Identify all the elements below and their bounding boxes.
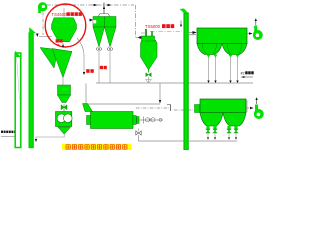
label #2 mill text (black) [241,71,254,75]
cyclone C2 [105,17,117,28]
caption yellow highlight with red text [62,144,132,150]
ball mill M1 body [91,112,134,129]
node T tick [103,3,105,8]
classifier U1 TS4500 body [52,18,77,42]
ball mill M1 left trunnion [87,116,91,125]
wire press discharge to elevator K2 [36,134,64,140]
node arrow on duct 2 [108,4,112,7]
wire down leg with arrow [159,84,161,102]
label TS4500 classifier (red) [52,12,82,17]
label 成品 red 2 [100,66,107,69]
wire dipleg 1 [98,51,100,84]
valve rotary C1 [96,48,99,51]
ball mill M1 feed chute [83,104,93,112]
valve rotary C2 [107,48,110,51]
wire top dash-dot duct [46,5,140,38]
wire crusher feed [1,136,17,141]
chute under roller press [58,127,71,134]
ball mill M1 right trunnion [133,116,136,125]
wire dashed vent from mill [136,107,169,109]
red ellipse callout [45,4,86,47]
svg-text:#2: #2 [241,72,245,76]
wire long floor line y83 [96,82,253,84]
valve V2 bow-tie [146,73,151,77]
chute V right [52,49,72,78]
bucket elevator K3 (tall center-right) [184,13,188,150]
silo S1 hoppers [197,44,222,55]
wire mill discharge to elevator K3 [139,135,189,141]
silo S1 inlet box [195,105,201,113]
label gypsum crusher (black) [1,131,16,133]
label 回粉 red [86,69,94,73]
cyclone C1 [93,17,105,28]
chute V left [40,48,58,69]
classifier U2 TS5000 [141,29,158,83]
silo S2 (bottom right) body [200,99,246,113]
wire return fines curve [77,38,84,73]
wire feed line to classifier [39,36,52,38]
wire small arrow line under text [242,76,254,78]
motor drive train [139,117,163,124]
silo S1 legs [209,57,238,82]
node vent stub [63,8,65,17]
wire to hopper [62,78,64,86]
label 成品 (red) under classifier [56,39,63,46]
silo S1 (top right) body [197,28,247,44]
node discharge arrow [62,44,64,47]
bucket elevator K1 (left) [15,53,21,148]
wire dipleg 2 [109,51,111,84]
valve V3 under mill discharge [138,129,140,132]
wire transfer line y104 [86,103,160,105]
coupling [137,117,139,124]
node arrow on duct [94,4,98,7]
silo S2 outlet valves (green bow-ties) [206,126,238,140]
fan F3 (right of silo2) [255,105,258,112]
wire floor line under silo2 [188,140,237,142]
fan F2 (right of silo1) [254,26,257,33]
wire silo2 exhaust to fan [246,107,253,109]
roller press RP1 [56,112,72,127]
wire arrow into TS5000 [138,37,144,39]
svg-text:TS5000: TS5000 [145,24,161,29]
bucket elevator K2 (second) [29,33,33,148]
fan F1 top-left [38,2,47,13]
node small arrow [36,34,39,38]
node inlet arrow to C1 [90,19,94,22]
cyclone pair riser [103,9,105,15]
wire fan outlet dashed [42,12,44,35]
svg-text:TS4500: TS4500 [52,12,68,17]
wire silo1 exhaust to fan [247,33,252,35]
wire classifier air to silo1 [150,31,182,33]
hopper H1 above roller press [58,85,71,95]
wire mill feed vertical [85,84,87,113]
cyclone header bracket [98,14,110,18]
valve V1 bow-tie [63,105,65,112]
label TS5000 classifier (red) [145,24,174,29]
silo S2 hoppers [200,113,223,127]
